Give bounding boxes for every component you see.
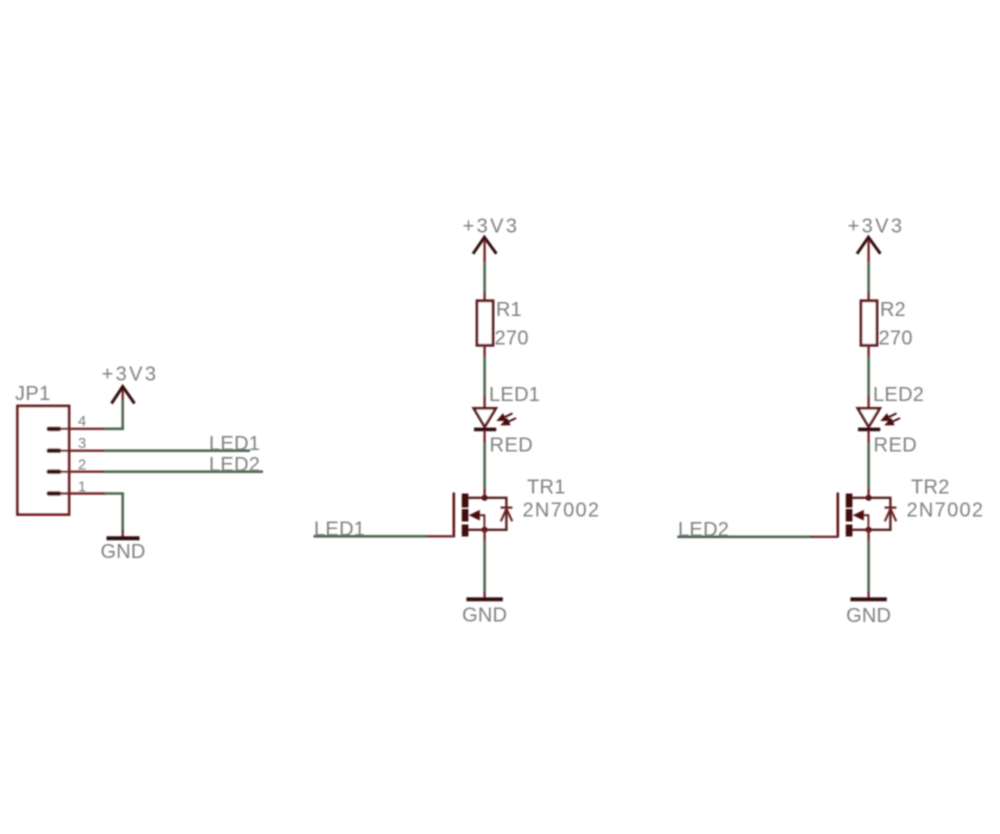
svg-text:LED1: LED1 (314, 519, 365, 541)
JP1 pin 1 line (60, 492, 105, 494)
TR2 body diode cathode bar (885, 507, 897, 509)
wire TR2 source to GND (867, 541, 870, 591)
JP1 pin 2 contact bar (47, 469, 62, 474)
svg-text:RED: RED (490, 435, 534, 457)
JP1 pin 3 contact bar (47, 448, 62, 453)
resistor R2 body (861, 301, 877, 346)
svg-text:2N7002: 2N7002 (907, 500, 985, 522)
JP1 pin 3 line (60, 450, 105, 452)
svg-text:3: 3 (78, 435, 86, 452)
pin stub TR2 gate (810, 536, 838, 538)
svg-text:R1: R1 (496, 299, 522, 321)
svg-text:TR2: TR2 (911, 477, 950, 499)
wire stub below +3V3 arrow (middle) (483, 240, 485, 262)
TR2 bulk link to source (864, 515, 869, 529)
transistor TR1 2N7002 (n-mosfet) (454, 493, 513, 538)
power +3V3 symbol (left) arrow (112, 387, 135, 404)
TR1 drain link (468, 498, 506, 530)
svg-text:LED2: LED2 (209, 454, 260, 476)
TR2 drain link (852, 498, 890, 530)
svg-text:+3V3: +3V3 (463, 216, 520, 238)
connector JP1 body (18, 406, 70, 515)
wire stub above GND (middle) (483, 591, 485, 598)
TR2 channel bar (source) (846, 525, 853, 537)
TR1 bulk link to source (480, 515, 485, 529)
power +3V3 symbol (right) arrow (857, 237, 880, 254)
TR1 body diode cathode bar (501, 507, 513, 509)
TR2 channel bar (bulk) (846, 509, 853, 522)
svg-text:GND: GND (846, 605, 891, 627)
pin stub LED2 anode (867, 396, 869, 408)
svg-text:LED1: LED1 (489, 384, 540, 406)
wire LED2 to TR2 drain (867, 443, 870, 488)
pin stub TR2 source (867, 530, 869, 541)
TR1 junction dot source (482, 527, 488, 533)
JP1 pin 1 contact bar (47, 491, 62, 496)
wire TR1 source to GND (483, 541, 486, 591)
TR2 bulk arrow (853, 510, 864, 521)
pin stub TR2 drain (867, 488, 869, 498)
svg-text:+3V3: +3V3 (102, 364, 159, 386)
svg-text:LED2: LED2 (873, 384, 924, 406)
svg-text:TR1: TR1 (527, 477, 566, 499)
svg-text:270: 270 (495, 328, 529, 350)
svg-text:4: 4 (78, 413, 86, 430)
LED LED2 cathode bar (858, 428, 880, 432)
TR2 body diode triangle (885, 509, 896, 522)
svg-text:RED: RED (874, 435, 918, 457)
transistor TR2 2N7002 (n-mosfet) (838, 493, 897, 538)
wire net LED2 from pin 2 (105, 470, 263, 473)
wire LED1 to TR1 drain (483, 443, 486, 488)
pin stub LED2 cathode (867, 431, 869, 444)
pin stub TR1 gate (426, 535, 454, 537)
svg-text:1: 1 (78, 479, 86, 496)
svg-text:JP1: JP1 (15, 383, 51, 405)
TR1 junction dot drain (482, 495, 488, 501)
TR2 gate line (836, 493, 839, 538)
LED LED2 emission arrows (883, 413, 901, 424)
wire net LED1 from pin 3 (105, 449, 250, 452)
pin stub R2 top (867, 292, 869, 301)
power +3V3 symbol (middle) arrow (473, 237, 496, 254)
svg-text:2: 2 (78, 457, 86, 474)
LED LED1 emission arrows (499, 413, 517, 424)
wire R1 to LED1 (483, 357, 486, 396)
TR1 bulk arrow (469, 510, 480, 521)
wire pin4 to +3V3 (horizontal) (105, 400, 123, 429)
TR1 channel bar (bulk) (462, 509, 469, 522)
svg-text:+3V3: +3V3 (848, 216, 905, 238)
svg-text:LED1: LED1 (209, 433, 260, 455)
svg-text:LED2: LED2 (678, 519, 729, 541)
LED LED1 triangle (474, 408, 496, 427)
wire +3V3 to R2 (867, 262, 870, 292)
pin stub LED1 cathode (483, 431, 485, 444)
pin stub R1 top (483, 292, 485, 301)
TR1 channel bar (drain) (462, 494, 469, 508)
TR2 channel bar (drain) (846, 494, 853, 508)
TR1 body diode triangle (501, 509, 512, 522)
pin stub R2 bottom (867, 345, 869, 357)
pin stub R1 bottom (483, 345, 485, 357)
pin stub TR1 drain (483, 488, 485, 498)
ground GND symbol (middle) bar (466, 597, 502, 601)
LED LED1 cathode bar (474, 428, 496, 432)
wire pin1 to ground (105, 494, 123, 532)
pin stub TR1 source (483, 530, 485, 541)
wire stub above left GND (121, 530, 123, 537)
JP1 pin 2 line (60, 471, 105, 473)
wire stub below +3V3 arrow (121, 389, 123, 400)
wire R2 to LED2 (867, 357, 870, 396)
svg-text:R2: R2 (880, 299, 906, 321)
TR1 channel bar (source) (462, 525, 469, 537)
TR2 junction dot source (866, 527, 872, 533)
LED LED2 triangle (858, 408, 880, 427)
svg-text:270: 270 (879, 328, 913, 350)
TR1 gate line (452, 493, 455, 538)
pin stub LED1 anode (483, 396, 485, 408)
wire net LED1 to TR1 gate (314, 535, 427, 538)
wire net LED2 to TR2 gate (677, 535, 810, 538)
svg-text:GND: GND (462, 605, 507, 627)
wire +3V3 to R1 (483, 262, 486, 292)
ground GND symbol (right) bar (850, 597, 886, 601)
TR2 junction dot drain (866, 495, 872, 501)
JP1 pin 4 contact bar (47, 427, 62, 432)
svg-text:GND: GND (100, 541, 145, 563)
svg-text:2N7002: 2N7002 (523, 500, 601, 522)
resistor R1 body (477, 301, 493, 346)
JP1 pin 4 line (60, 428, 105, 430)
ground GND symbol (left) bar (107, 536, 140, 540)
wire stub below +3V3 arrow (right) (867, 240, 869, 262)
wire stub above GND (right) (867, 591, 869, 598)
